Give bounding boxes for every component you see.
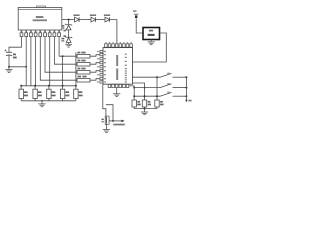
node b1 xyxy=(20,85,22,87)
resistor RL4 xyxy=(60,86,69,101)
switch label K2 xyxy=(167,83,169,84)
wire p7 down to box3 xyxy=(49,37,51,86)
resistor RT1 xyxy=(77,52,100,58)
label servo motor xyxy=(113,124,125,126)
switch label K3 xyxy=(167,92,169,93)
node sw3 bus xyxy=(185,95,187,97)
C5 plus sign xyxy=(5,49,7,51)
ground under U2 bottom pin xyxy=(113,88,120,97)
U2 right pin labels xyxy=(125,54,127,83)
wire box2 feed from U2 xyxy=(133,83,145,100)
resistor RL5 xyxy=(74,86,83,101)
wire left row bottom bus xyxy=(21,100,76,102)
bus left row top xyxy=(21,85,76,87)
node cap/gnd junction xyxy=(8,66,10,68)
wire cap bottom xyxy=(8,56,10,67)
node row B start xyxy=(133,87,135,89)
wire transistor source down xyxy=(105,124,107,129)
diode D2 xyxy=(90,14,105,22)
zener D5 xyxy=(61,36,72,44)
node b3 xyxy=(48,85,50,87)
wire row A from U2 xyxy=(133,76,161,78)
switch S1 xyxy=(160,73,186,77)
node rc3 xyxy=(156,95,158,97)
wire regulator out to MCU xyxy=(133,33,167,62)
U1 pin name row xyxy=(21,30,60,32)
diode D1 xyxy=(73,14,91,22)
resistor R6 xyxy=(155,100,164,109)
U1 inner top line xyxy=(18,8,62,10)
wire box1 stub xyxy=(133,96,135,100)
wire p9 to RT1 row xyxy=(59,37,77,57)
wire box3 vertical xyxy=(156,77,158,100)
ground under regulator xyxy=(148,40,155,45)
U2 part label rotated xyxy=(116,55,118,66)
right bus xyxy=(185,77,187,100)
wire U2 left-bottom to transistor xyxy=(103,84,106,116)
U2 left pins xyxy=(100,50,103,83)
U1 label line2 xyxy=(33,19,47,21)
ground under zeners xyxy=(65,44,72,47)
node sw1 bus xyxy=(185,76,187,78)
ground under transistor xyxy=(103,130,110,133)
ground bottom left row xyxy=(38,101,45,107)
resistor RL3 xyxy=(47,86,56,101)
transistor Q1 xyxy=(101,116,109,124)
C5 label xyxy=(13,54,16,56)
node box4 tee xyxy=(62,55,64,57)
wire servo arrow xyxy=(109,120,122,122)
wire right row bottom bus xyxy=(134,108,157,110)
resistor RL2 xyxy=(33,86,42,101)
IC U1 DTMF decoder body xyxy=(18,7,62,30)
resistor R4 xyxy=(132,100,141,109)
resistor R5 xyxy=(142,100,151,109)
node B cross xyxy=(144,87,146,89)
IC U2 MCU body xyxy=(103,48,133,85)
U1 pin pads xyxy=(20,33,60,37)
switch S2 xyxy=(160,84,186,88)
wire row B xyxy=(134,87,160,89)
U1 label HT9170 xyxy=(36,16,44,18)
wire p2 down to bus xyxy=(25,37,27,86)
resistor RT4 xyxy=(77,76,100,82)
wire p8 to RT2 row xyxy=(54,37,77,65)
switch label K1 xyxy=(167,73,169,74)
node box3 feed xyxy=(156,76,158,78)
zener D4 xyxy=(61,20,72,38)
node sw2 bus xyxy=(185,87,187,89)
resistor RT2 xyxy=(77,60,100,66)
switch S3 xyxy=(160,92,186,96)
U2 top pin numbers xyxy=(105,42,131,43)
U1 top tab xyxy=(37,6,46,7)
node b2 xyxy=(34,85,36,87)
node zener tee xyxy=(68,19,70,21)
wire servo feed xyxy=(106,105,113,121)
wire p4 down to box2 xyxy=(35,37,37,86)
regulator IC3 7805 xyxy=(143,28,160,40)
node gnd left row xyxy=(41,100,43,102)
wire p5 to RT4 row xyxy=(40,37,77,81)
wire U1 to diode chain xyxy=(62,19,75,21)
U2 top pins xyxy=(105,44,133,47)
wire box4 vertical xyxy=(62,56,64,86)
node rc1 xyxy=(133,95,135,97)
ground under cap xyxy=(5,67,12,73)
node gnd join xyxy=(144,108,146,110)
node servo junction xyxy=(112,120,114,122)
wire cap junction to p2 xyxy=(9,66,26,68)
resistor RT3 xyxy=(77,68,100,74)
node b5 xyxy=(75,85,77,87)
connector marks right of U1 xyxy=(63,30,66,32)
diode D3 xyxy=(104,14,117,43)
wire p6 to RT3 row xyxy=(45,37,77,73)
resistor RL1 xyxy=(19,86,28,101)
node p2 join xyxy=(25,66,27,68)
node b4 xyxy=(62,85,64,87)
power terminal 12V xyxy=(133,10,143,33)
ground right row xyxy=(141,109,148,115)
U2 left pin labels xyxy=(97,51,106,83)
arrow down 12V xyxy=(185,100,187,102)
wire row C bus xyxy=(134,95,160,97)
wire box5 vertical xyxy=(75,52,77,85)
wire pin1 to cap xyxy=(9,37,22,53)
wire bottom pad D to box1 xyxy=(129,86,134,96)
capacitor C5 plates xyxy=(6,51,12,53)
wire p3 down to bus xyxy=(30,37,32,86)
U2 bottom pins xyxy=(108,84,129,87)
node rc2 xyxy=(144,95,146,97)
